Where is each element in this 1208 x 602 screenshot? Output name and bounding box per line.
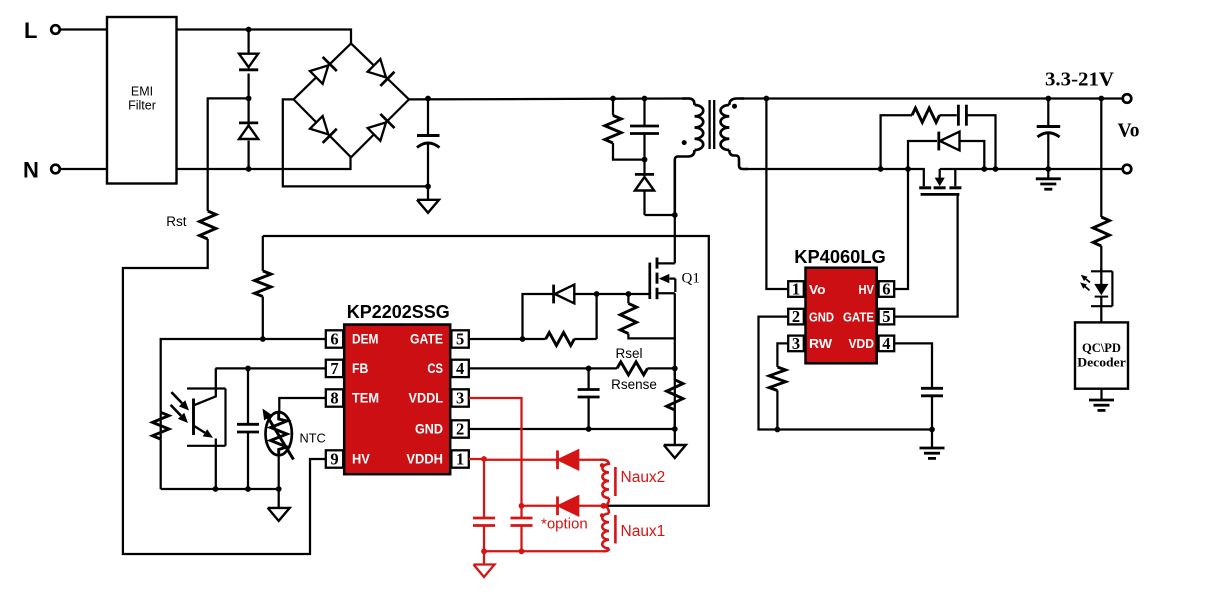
node snubber C top xyxy=(642,96,648,102)
label Vo xyxy=(1118,121,1140,142)
diode bridge TL xyxy=(309,57,337,85)
ground QC PD xyxy=(1089,389,1114,411)
svg-text:VDD: VDD xyxy=(849,336,875,351)
pin 1 U2 xyxy=(788,280,804,299)
node aux cap2 gnd xyxy=(519,548,525,554)
pin 8 U1 xyxy=(326,389,343,408)
svg-text:5: 5 xyxy=(456,330,464,349)
wire N out to bridge bottom xyxy=(177,157,351,169)
pin 2 U2 xyxy=(788,307,804,326)
wire bridge arm BL xyxy=(294,99,352,157)
pin 9 U1 xyxy=(326,450,343,469)
node CS sense xyxy=(672,366,678,372)
wire bridge arm TL xyxy=(294,43,352,99)
resistor opto bias xyxy=(153,412,169,489)
label 3.3-21V xyxy=(1045,69,1114,91)
transformer secondary winding xyxy=(721,99,748,170)
terminal Vo- xyxy=(1123,165,1132,174)
svg-text:KP4060LG: KP4060LG xyxy=(794,246,886,267)
node clamp-drain xyxy=(672,212,678,218)
EMI filter block xyxy=(107,17,177,184)
svg-text:7: 7 xyxy=(330,359,338,378)
op-amp U2 KP4060LG title xyxy=(794,246,886,267)
wire pin2 GND row xyxy=(469,428,675,430)
node N-diode junction xyxy=(246,166,252,172)
winding Naux2 xyxy=(600,460,609,506)
wire Q1 source down xyxy=(674,293,676,429)
diode sync xyxy=(908,132,984,169)
resistor RW xyxy=(769,343,788,429)
svg-text:DEM: DEM xyxy=(352,331,379,347)
resistor Rsel xyxy=(615,346,674,375)
ground aux red xyxy=(474,551,495,577)
transistor Q2 sync FET xyxy=(919,169,961,194)
capacitor bulk xyxy=(417,99,440,187)
svg-text:Vo: Vo xyxy=(1118,121,1140,142)
svg-text:8: 8 xyxy=(330,389,338,408)
diode startup D2 xyxy=(239,123,258,139)
opto LED feedback xyxy=(1091,268,1112,322)
wire U2 pin2 gnd xyxy=(759,317,933,430)
svg-text:Rst: Rst xyxy=(166,214,186,229)
node DC+ cap xyxy=(425,96,431,102)
QC PD decoder block xyxy=(1075,322,1128,388)
terminal L xyxy=(24,18,60,43)
node GND cap xyxy=(586,426,592,432)
svg-text:HV: HV xyxy=(352,451,370,467)
wire Q2 gate to pin5 xyxy=(894,196,957,317)
wire pin3 VDDL red xyxy=(469,398,522,506)
node sync RC right xyxy=(993,166,999,172)
node snubber R top xyxy=(610,96,616,102)
op-amp U1 KP2202SSG body xyxy=(344,325,450,475)
pin 6 U2 xyxy=(879,280,895,299)
node output cap bottom xyxy=(1045,166,1051,172)
label Naux1 xyxy=(621,523,666,540)
svg-text:1: 1 xyxy=(792,280,800,299)
node opto emitter gnd xyxy=(213,486,219,492)
node GND sense xyxy=(672,426,678,432)
resistor Rsense xyxy=(667,368,683,429)
wire pin4 CS xyxy=(469,367,617,369)
resistor feedback xyxy=(1093,99,1109,271)
capacitor VDDL xyxy=(511,506,533,552)
svg-text:RW: RW xyxy=(809,336,833,351)
pin 4 U1 xyxy=(451,359,468,378)
svg-text:TEM: TEM xyxy=(352,390,379,406)
wire bridge arm TR xyxy=(351,43,409,99)
capacitor FB xyxy=(237,368,259,489)
capacitor sync snubber xyxy=(958,105,995,169)
pin labels U1 right xyxy=(406,331,443,467)
node bulk cap bottom xyxy=(425,184,431,190)
pin 4 U2 xyxy=(879,334,895,353)
node VDDH xyxy=(481,456,487,462)
svg-text:2: 2 xyxy=(456,420,464,439)
pin 1 U1 xyxy=(451,450,468,469)
winding Naux1 dot xyxy=(600,513,604,517)
winding Naux2 dot xyxy=(600,463,604,467)
diode aux D2 option xyxy=(522,496,602,532)
ground primary xyxy=(664,429,686,458)
wire NTC bottom xyxy=(278,455,280,489)
svg-text:Naux1: Naux1 xyxy=(621,523,666,540)
winding Naux1 xyxy=(602,506,609,552)
svg-text:9: 9 xyxy=(330,450,338,469)
svg-text:L: L xyxy=(24,18,37,43)
node sync RC left xyxy=(878,166,884,172)
wire secondary return rail left xyxy=(746,169,924,186)
node aux cap1 gnd xyxy=(481,548,487,554)
svg-text:3.3-21V: 3.3-21V xyxy=(1045,69,1114,91)
wire secondary top rail xyxy=(740,97,1123,99)
svg-text:VDDH: VDDH xyxy=(406,451,443,467)
pin 2 U1 xyxy=(451,420,468,439)
node CS cap xyxy=(586,366,592,372)
transformer secondary dot xyxy=(732,104,737,109)
opto LED arrows xyxy=(1080,275,1090,291)
ground opto xyxy=(268,489,290,521)
svg-text:1: 1 xyxy=(456,450,464,469)
terminal N xyxy=(23,158,60,183)
wire D1 to node xyxy=(247,74,249,126)
svg-text:Rsense: Rsense xyxy=(611,377,657,392)
winding Naux2 core xyxy=(614,467,617,496)
node Vo-pin takeoff xyxy=(764,96,770,102)
thermistor NTC xyxy=(263,409,326,460)
transistor Q1 xyxy=(650,258,700,300)
wire drain from clamp node xyxy=(674,215,676,263)
pin 7 U1 xyxy=(326,359,343,378)
ground output xyxy=(1036,169,1061,189)
wire pin1 VDDH red xyxy=(469,458,484,460)
node sync diode right xyxy=(981,166,987,172)
op-amp U1 KP2202SSG title xyxy=(347,302,450,322)
svg-text:VDDL: VDDL xyxy=(409,390,444,406)
capacitor CS filter xyxy=(578,368,600,429)
svg-text:Q1: Q1 xyxy=(682,271,700,287)
svg-text:*option: *option xyxy=(541,516,588,533)
svg-text:QC\PD: QC\PD xyxy=(1082,340,1121,355)
svg-text:3: 3 xyxy=(456,389,464,408)
node feedback takeoff xyxy=(1098,96,1104,102)
node aux tap xyxy=(601,503,607,509)
wire diode column top xyxy=(247,30,249,55)
svg-text:Filter: Filter xyxy=(128,99,156,113)
node U2 RW bottom xyxy=(775,427,781,433)
node DEM resistor xyxy=(260,336,266,342)
svg-text:Decoder: Decoder xyxy=(1077,355,1126,370)
pin 5 U2 xyxy=(879,307,895,326)
svg-text:FB: FB xyxy=(352,360,368,376)
svg-text:GATE: GATE xyxy=(410,331,443,347)
wire startup node to Rst xyxy=(208,98,249,211)
diode aux D1 xyxy=(484,450,602,469)
pin labels U1 left xyxy=(352,331,379,467)
pin 3 U2 xyxy=(788,334,804,353)
resistor gate series xyxy=(546,294,597,346)
wire DEM link to aux tap xyxy=(263,236,709,506)
wire D2 to N line xyxy=(247,141,249,169)
svg-text:N: N xyxy=(23,158,39,183)
wire Rst down-left xyxy=(123,239,326,554)
node L-diode junction xyxy=(246,27,252,33)
opto transistor U3 xyxy=(187,368,226,489)
diode bridge BL xyxy=(309,115,337,143)
wire pin7 FB xyxy=(216,367,326,369)
node clamp bottom xyxy=(642,157,648,163)
wire pin6 DEM xyxy=(161,339,326,412)
capacitor VDD xyxy=(894,343,943,429)
transformer primary winding xyxy=(675,99,703,216)
ground U2 xyxy=(920,430,945,459)
capacitor VDDH xyxy=(473,459,495,551)
node sync diode left xyxy=(905,166,911,172)
resistor clamp snubber xyxy=(605,99,645,160)
svg-text:5: 5 xyxy=(882,307,890,326)
diode gate turnoff xyxy=(523,285,597,339)
diode startup D1 xyxy=(239,54,258,70)
svg-text:6: 6 xyxy=(330,330,338,349)
wire L out to bridge top xyxy=(177,30,352,44)
svg-text:2: 2 xyxy=(792,307,800,326)
svg-text:GND: GND xyxy=(415,421,443,437)
op-amp U2 KP4060LG body xyxy=(806,268,877,364)
pin 5 U1 xyxy=(451,330,468,349)
resistor Rst xyxy=(166,211,216,239)
pin labels U2 xyxy=(809,282,874,351)
pin 3 U1 xyxy=(451,389,468,408)
wire bridge DC- path xyxy=(283,99,428,186)
winding Naux1 core xyxy=(614,515,617,544)
terminal Vo+ xyxy=(1123,94,1132,103)
label Rsense xyxy=(611,377,657,392)
wire pin8 TEM xyxy=(279,398,326,413)
svg-text:Rsel: Rsel xyxy=(615,346,642,361)
resistor gate pulldown xyxy=(620,294,676,338)
node FB cap gnd xyxy=(245,486,251,492)
svg-text:GND: GND xyxy=(809,309,834,324)
wire U2 pin1 to Vo rail xyxy=(766,99,788,290)
opto light arrows xyxy=(171,392,189,423)
svg-text:3: 3 xyxy=(792,334,800,353)
diode clamp xyxy=(635,160,675,215)
wire secondary return rail right xyxy=(940,168,1124,170)
wire U2 pin6 to drain xyxy=(894,169,908,289)
wire pin5 gate xyxy=(469,338,546,340)
node NTC gnd xyxy=(276,486,282,492)
wire gate net to Q1 xyxy=(597,293,649,295)
wire aux gnd rail xyxy=(484,550,604,552)
capacitor clamp snubber xyxy=(630,99,659,160)
node startup mid xyxy=(246,96,252,102)
diode bridge TR xyxy=(367,58,395,86)
node gate pulldown xyxy=(626,291,632,297)
node FB cap xyxy=(245,366,251,372)
wire opto gnd rail xyxy=(161,488,279,490)
node gate branch xyxy=(520,336,526,342)
label Naux2 xyxy=(621,469,666,486)
transformer core xyxy=(710,100,715,149)
pin 6 U1 xyxy=(326,330,343,349)
wire bridge DC+ rail xyxy=(409,97,690,100)
svg-text:KP2202SSG: KP2202SSG xyxy=(347,302,450,322)
svg-text:HV: HV xyxy=(859,282,875,297)
wire N to EMI filter xyxy=(60,168,107,170)
wire L to EMI filter xyxy=(60,28,107,30)
svg-text:GATE: GATE xyxy=(843,309,874,324)
resistor DEM upper xyxy=(255,236,271,339)
transformer primary dot xyxy=(682,140,687,145)
node output cap top xyxy=(1045,96,1051,102)
node U2 gnd cap xyxy=(929,427,935,433)
node gate net right xyxy=(594,291,600,297)
svg-text:CS: CS xyxy=(427,360,443,376)
wire bridge arm BR xyxy=(351,99,409,157)
svg-text:Vo: Vo xyxy=(809,282,826,297)
svg-text:NTC: NTC xyxy=(300,431,326,446)
diode bridge BR xyxy=(367,114,395,142)
capacitor output xyxy=(1037,99,1061,170)
svg-text:Naux2: Naux2 xyxy=(621,469,666,486)
node VDDL tap xyxy=(519,503,525,509)
ground bulk xyxy=(417,186,439,212)
svg-text:4: 4 xyxy=(882,334,890,353)
svg-text:4: 4 xyxy=(456,359,464,378)
svg-text:6: 6 xyxy=(882,280,890,299)
svg-text:EMI: EMI xyxy=(131,85,153,99)
resistor sync snubber xyxy=(881,108,957,169)
